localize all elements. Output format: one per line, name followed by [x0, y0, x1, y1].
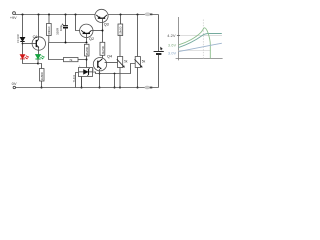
node dot Q1 base tap [22, 43, 24, 45]
chart gridline low [179, 50, 211, 52]
node dot R4/R5 [86, 59, 88, 61]
svg-text:4k700: 4k700 [101, 46, 105, 55]
svg-text:3.0V: 3.0V [168, 50, 177, 55]
node dot P2 bottom [137, 87, 139, 89]
wire battery to bottom rail [158, 55, 160, 88]
chart curve teal [179, 34, 222, 48]
node dot rail x120.5 [120, 14, 122, 16]
capacitor C1 [62, 15, 68, 43]
svg-text:+9V: +9V [10, 16, 17, 20]
svg-text:Q1: Q1 [33, 35, 38, 39]
wire rail to Q2 emitter [76, 15, 80, 31]
svg-text:5k: 5k [142, 59, 146, 63]
svg-text:Q3: Q3 [104, 22, 109, 26]
resistor R3 [118, 24, 123, 36]
transistor Q2 [80, 24, 93, 37]
resistor R2 [40, 69, 45, 82]
transistor Q3 [95, 9, 108, 22]
node dot rail x137.5 [137, 14, 139, 16]
svg-text:330k0: 330k0 [47, 26, 51, 35]
wire R1 top [48, 15, 50, 24]
wire R5 right [78, 59, 87, 61]
wire R1 bottom to node wire [48, 36, 50, 43]
switch S1 (top rail) [145, 13, 153, 16]
LED D3 green [35, 55, 44, 59]
wire R3 to P1 top [119, 36, 121, 57]
wire Q2 base down [86, 34, 88, 43]
node dot gnd tee [114, 73, 116, 75]
chart curve green peak [179, 28, 211, 59]
node dot Q4 emitter bottom [99, 87, 101, 89]
transistor Q1 [32, 37, 45, 50]
wire Q4 emitter down [99, 69, 101, 88]
node dot rail x22.5 [22, 14, 24, 16]
wire U1 pin2 run to P2 wiper [93, 64, 136, 74]
trimpot P1 [117, 57, 125, 68]
wire R6 to Q4 collector [102, 55, 104, 59]
node dot C1 on node wire [65, 42, 67, 44]
mouse cursor [160, 47, 163, 51]
node dot rail x49 [48, 14, 50, 16]
wire D3 to node B [37, 59, 39, 64]
node dot gnd run bottom [114, 87, 116, 89]
diode D1 [20, 37, 24, 41]
battery BT1 [154, 52, 164, 55]
wire U1 ref to bottom rail [76, 73, 79, 88]
wire R2 to bottom rail [41, 81, 43, 88]
svg-text:Q4: Q4 [107, 55, 112, 59]
resistor R4 [85, 44, 90, 56]
wire Q1 collector to rail [38, 15, 40, 40]
wire right riser (rail corner to battery) [158, 15, 160, 52]
LED D2 red [20, 55, 28, 59]
wire D2 to node B [23, 59, 39, 64]
chart curve blue [179, 43, 222, 51]
wire Q1 base [23, 43, 37, 45]
resistor R5 [64, 58, 79, 63]
svg-text:1N4148: 1N4148 [17, 34, 20, 43]
node dot Q4 emitter/gnd wire [99, 73, 101, 75]
wire D1 to LED D2 [22, 42, 24, 55]
wire node C horizontal [49, 42, 87, 44]
wire P1 bottom to rail [119, 68, 121, 88]
terminal +9V [13, 12, 16, 15]
chart axes [176, 17, 223, 60]
svg-text:Q2: Q2 [89, 37, 94, 41]
node B dot [37, 63, 39, 65]
chart tick 4.2V [177, 35, 180, 37]
wire rail to P2 top [137, 15, 139, 57]
svg-text:4.2V: 4.2V [167, 33, 176, 38]
switch S1b (bottom rail) [145, 86, 153, 89]
node dot R2 bottom [41, 87, 43, 89]
svg-text:2k200: 2k200 [85, 47, 89, 56]
node dot Q3 base / Q2 collector [102, 30, 104, 32]
chart dashed vertical [202, 20, 204, 59]
wire rail to R3 [120, 15, 122, 25]
wire bottom rail [16, 87, 159, 89]
trimpot P2 [135, 57, 143, 68]
wire D1 column [22, 15, 24, 38]
wire top rail right [108, 14, 159, 16]
transistor Q4 [93, 57, 106, 70]
node dot rail x38.5 [38, 14, 40, 16]
svg-text:1k800: 1k800 [40, 72, 44, 81]
wire U1 anode to bottom rail [81, 77, 83, 88]
wire tee down to rail [114, 74, 116, 88]
node dot Q2 base / R4 [86, 42, 88, 44]
IC U1 TL431 [79, 68, 93, 77]
resistor R1 [47, 24, 52, 36]
chart gridline 4.2V [179, 35, 223, 37]
wire R4 bottom [86, 56, 88, 68]
resistor R6 [100, 42, 105, 55]
wire Q2 collector to Q3 base node [92, 30, 103, 32]
svg-text:5k: 5k [124, 59, 128, 63]
wire Q3 base down [102, 19, 104, 43]
svg-text:7k: 7k [69, 58, 73, 62]
wire node C down to R5 [49, 43, 64, 60]
svg-text:0V: 0V [12, 81, 17, 86]
node dot P1 bottom [119, 87, 121, 89]
node dot rail x65.5 [65, 14, 67, 16]
svg-text:10k00: 10k00 [119, 26, 123, 35]
terminal 0V [13, 86, 15, 88]
wire P2 bottom to rail [137, 68, 139, 88]
node dot rail x75.5 [75, 14, 77, 16]
wire node B to R2 [38, 64, 42, 69]
wire Q1 emitter to LED D3 [38, 47, 40, 54]
wire top rail left [15, 13, 95, 16]
node dot U1 anode [81, 87, 83, 89]
svg-text:3.6V: 3.6V [168, 43, 177, 48]
svg-text:100µ: 100µ [59, 24, 63, 31]
wire Q4 base to P1 wiper [105, 62, 118, 64]
